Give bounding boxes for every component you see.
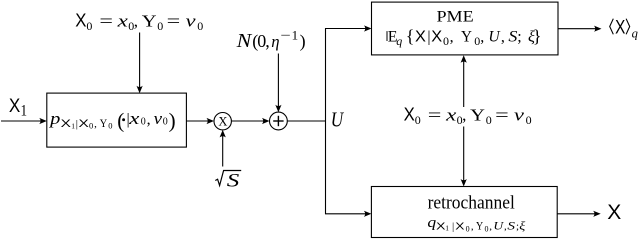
node X1 input label [9, 95, 27, 120]
wire X1 into channel box [1, 118, 47, 124]
PME box [372, 2, 559, 55]
wire sqrt(S) up into multiplier [220, 130, 226, 167]
node X output label [607, 201, 621, 224]
retrochannel box [371, 187, 557, 238]
wire from top-left label down into channel box [137, 33, 143, 94]
svg-text:X: X [218, 115, 227, 129]
wire X0,Upsilon0 up into PME box (conditioning) [461, 55, 467, 107]
wire multiplier to adder [231, 118, 269, 124]
wire U to PME box [325, 25, 372, 31]
retrochannel formula q_{X1|X0,Upsilon0,U,S;xi} [427, 215, 526, 234]
svg-text:X: X [607, 201, 621, 224]
svg-text:Eq{X|X0,Υ0,U,S;ξ}: Eq{X|X0,Υ0,U,S;ξ} [388, 26, 542, 48]
channel box p_{X1|X0,Upsilon0}(.|x0,v0) [47, 93, 187, 147]
wire adder to U node [287, 120, 326, 122]
svg-text:retrochannel: retrochannel [428, 193, 515, 214]
node N(0, eta^-1) label [236, 28, 306, 53]
wire X0,Upsilon0 down into retrochannel box (conditioning) [461, 127, 467, 187]
svg-text:PME: PME [437, 9, 474, 26]
svg-text:U: U [331, 108, 345, 132]
node U label [331, 108, 345, 132]
node X0 = x0, Upsilon0 = v0 (top-left label) [75, 10, 203, 33]
node U vertical bus [325, 29, 327, 214]
wire channel box to multiplier [186, 118, 214, 124]
svg-text:S: S [227, 170, 240, 191]
PME box formula E_q{X|X0,Upsilon0,U,S;xi} [387, 26, 542, 48]
node <X>_q output label [610, 18, 638, 41]
wire PME output [558, 26, 602, 32]
multiplier circle (x) [214, 113, 231, 130]
wire U to retrochannel box [325, 211, 371, 217]
wire N(0,eta^-1) down into adder [275, 54, 281, 113]
svg-text:q: q [632, 26, 638, 40]
sqrt(S) label [215, 170, 241, 191]
svg-text:X: X [615, 18, 625, 39]
node X0 = x0, Upsilon0 = v0 (middle label) [404, 104, 532, 127]
wire retrochannel output [557, 211, 601, 217]
adder circle (+) [270, 112, 288, 130]
